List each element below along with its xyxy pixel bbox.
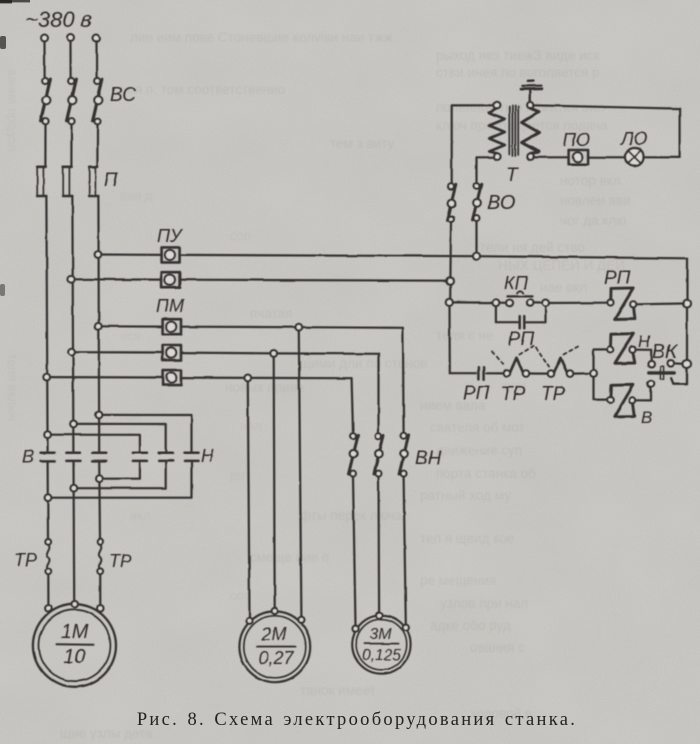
- wire L3 to fuse: [96, 124, 98, 166]
- wire row PM2 left: [72, 351, 163, 353]
- node tap PM2 on L2: [68, 349, 75, 356]
- svg-text:10: 10: [63, 646, 85, 668]
- wire right rail: [686, 258, 688, 360]
- wire L2 drop: [69, 41, 71, 78]
- svg-text:Т: Т: [506, 165, 519, 186]
- wire 2M drop a: [299, 331, 302, 617]
- wire coil N to VK: [636, 350, 652, 361]
- svg-text:узлов при нал: узлов при нал: [440, 596, 528, 611]
- svg-text:смеще ние п: смеще ние п: [250, 550, 329, 565]
- node right rail RP row: [683, 300, 691, 308]
- svg-text:ПУ: ПУ: [157, 226, 183, 246]
- svg-text:ТР: ТР: [541, 384, 566, 405]
- wire phase 2 main drop: [72, 196, 73, 453]
- contact N col2: [159, 453, 173, 461]
- relay coil V: [607, 385, 635, 417]
- node 2M branch b: [270, 350, 277, 357]
- transformer T primary winding: [489, 102, 505, 160]
- wire crossover top b: [77, 424, 166, 453]
- svg-text:ПО: ПО: [563, 130, 590, 150]
- wire phase 3 main drop: [97, 196, 100, 453]
- wire TR row seg3: [529, 372, 548, 374]
- reversing tap node on L1: [44, 431, 51, 438]
- wire lamp to right corner: [644, 156, 680, 158]
- svg-text:ратный ход му: ратный ход му: [420, 488, 511, 503]
- wire row PM2 right: [181, 353, 378, 354]
- wire phase2 below V: [72, 461, 75, 601]
- wire coil RP to right rail: [636, 302, 683, 305]
- svg-text:теля с не: теля с не: [436, 328, 494, 343]
- wire crossover top c: [51, 435, 140, 453]
- relay coil N: [607, 334, 635, 364]
- node L3 top terminal: [93, 35, 100, 42]
- contact PM1 box: [163, 319, 181, 334]
- wire row PM1 left: [98, 325, 162, 328]
- svg-text:рот: рот: [230, 468, 250, 483]
- svg-text:1М: 1М: [61, 621, 89, 643]
- node L1 top terminal: [41, 35, 48, 42]
- svg-text:0,125: 0,125: [362, 647, 401, 664]
- wire 3M drop b: [377, 477, 380, 613]
- svg-text:сое: сое: [230, 588, 251, 603]
- wire rail KP row to TR row corner: [448, 306, 450, 374]
- pushbutton KP: [493, 291, 549, 307]
- svg-text:3М: 3М: [369, 626, 392, 643]
- switch VO pole left: [447, 184, 456, 222]
- svg-text:новых приве: новых приве: [225, 380, 304, 395]
- svg-text:пчатая: пчатая: [250, 306, 292, 321]
- node KP row start on rail: [446, 299, 453, 306]
- contact N col3: [185, 453, 199, 461]
- motor M1: [33, 601, 116, 687]
- contact RP in TR row: [478, 367, 483, 379]
- wire branch up to coil N: [594, 349, 607, 370]
- node tap PU1 on L3: [95, 251, 102, 258]
- node 2M branch c: [245, 375, 252, 382]
- wire branch down to coil V: [594, 377, 607, 400]
- svg-text:0,27: 0,27: [258, 648, 294, 668]
- wire 3M drop c: [404, 477, 406, 625]
- svg-text:теля включ: теля включ: [5, 354, 20, 421]
- node rejoin on L1: [45, 494, 52, 501]
- svg-text:фты перек люча: фты перек люча: [300, 508, 403, 523]
- svg-text:Рис. 8. Схема электрооборудова: Рис. 8. Схема электрооборудования станка…: [137, 710, 577, 730]
- thermal contact TR1: [504, 358, 529, 377]
- svg-text:стви инея по воголяется р: стви инея по воголяется р: [436, 65, 600, 80]
- node VO-row1 junction: [473, 253, 480, 260]
- svg-text:ВО: ВО: [487, 192, 515, 214]
- wire row PM3 right: [181, 377, 352, 380]
- contact PO box: [569, 150, 589, 164]
- svg-text:вания продол: вания продол: [5, 69, 20, 151]
- wire TR row seg2: [486, 372, 504, 374]
- svg-text:щими дли по станов: щими дли по станов: [300, 356, 427, 371]
- wire crossover bottom b: [77, 461, 166, 488]
- svg-text:ося: ося: [120, 328, 141, 343]
- svg-text:рыход нез тиежЗ виде иск: рыход нез тиежЗ виде иск: [436, 48, 599, 63]
- wire row PU2 right: [180, 280, 450, 281]
- node right rail VK row: [683, 360, 691, 368]
- svg-text:РП: РП: [463, 383, 490, 404]
- svg-text:Н: Н: [638, 332, 651, 351]
- wire phase1 below V: [46, 461, 49, 539]
- wire 3M drop a: [353, 477, 356, 626]
- edge artifacts: [0, 0, 30, 2]
- wire secondary bottom to PO: [533, 156, 568, 158]
- svg-text:КП: КП: [504, 273, 529, 293]
- contact PU1 box: [162, 247, 180, 262]
- svg-text:ВК: ВК: [652, 341, 678, 363]
- svg-text:ТР: ТР: [109, 551, 132, 571]
- wire primary top to left rail: [452, 105, 494, 183]
- switch VS pole 2: [67, 78, 77, 124]
- wire 2M drop b: [274, 357, 275, 608]
- svg-text:2М: 2М: [260, 624, 286, 644]
- contact PU2 box: [162, 272, 180, 287]
- ground: [521, 81, 542, 103]
- relay coil RP: [608, 288, 637, 319]
- wire primary bottom to VO right pole: [477, 157, 494, 183]
- svg-text:ВН: ВН: [415, 448, 442, 469]
- svg-text:движение суп: движение суп: [436, 443, 522, 458]
- svg-text:новлен ави: новлен ави: [560, 193, 631, 208]
- transformer T core: [509, 106, 518, 156]
- wire row PM3 left: [47, 376, 163, 379]
- wire row PU1 right: [180, 255, 687, 258]
- svg-text:РП: РП: [604, 268, 631, 289]
- node L2 top terminal: [67, 35, 74, 42]
- wire VO left pole down rail: [449, 222, 452, 299]
- thermal heater TR phase3: [97, 539, 103, 574]
- contact V phase3: [92, 453, 106, 461]
- svg-text:тем з виту: тем з виту: [330, 136, 395, 151]
- switch VN pole a: [349, 433, 359, 476]
- svg-text:адке обо руд: адке обо руд: [430, 618, 511, 633]
- switch VO pole right: [473, 183, 482, 221]
- svg-text:тел я щвид кое: тел я щвид кое: [420, 531, 514, 546]
- wire row PU2 left: [71, 278, 161, 281]
- svg-text:ноя п. том соответственио: ноя п. том соответственио: [120, 82, 285, 97]
- switch VN pole c: [399, 433, 409, 476]
- node rejoin on L2: [71, 485, 78, 492]
- switch VS pole 3: [93, 78, 103, 124]
- wire crossover bottom c: [103, 461, 140, 479]
- wire L1 to fuse: [44, 124, 46, 166]
- svg-text:вии д: вии д: [120, 188, 153, 203]
- wire crossover top a: [102, 415, 191, 453]
- svg-text:ре мещения: ре мещения: [420, 573, 496, 588]
- motor M3: [352, 612, 410, 673]
- svg-text:В: В: [641, 408, 652, 427]
- node row PU2 end on rail: [446, 277, 453, 284]
- wire L3 drop: [95, 41, 97, 78]
- wire crossover bottom a: [51, 461, 191, 498]
- wire row PU1 left: [98, 253, 162, 256]
- node rejoin on L3: [96, 475, 103, 482]
- svg-text:ования с: ования с: [470, 640, 525, 655]
- reversing tap node on L2: [70, 421, 77, 428]
- svg-text:ВС: ВС: [110, 85, 136, 106]
- svg-text:свателя об мот: свателя об мот: [430, 420, 525, 435]
- wire KP row seg1: [453, 301, 493, 303]
- wire TR row seg4: [573, 372, 590, 375]
- switch VS pole 1: [41, 78, 51, 124]
- svg-text:вкл: вкл: [130, 508, 150, 523]
- svg-text:Н: Н: [201, 446, 215, 466]
- wire PO to lamp: [588, 156, 625, 158]
- svg-text:тели ня дей ство: тели ня дей ство: [480, 240, 585, 255]
- wire to motor1 c: [99, 574, 101, 605]
- contact PM2 box: [163, 345, 181, 360]
- wire L2 to fuse: [70, 124, 72, 166]
- fuse P pole 2: [63, 167, 72, 196]
- contact V phase2: [66, 453, 80, 461]
- svg-text:соп: соп: [230, 228, 251, 243]
- svg-text:~380 в: ~380 в: [25, 7, 92, 32]
- svg-text:поленнос тью нажатия вил: поленнос тью нажатия вил: [436, 100, 605, 115]
- svg-text:ПМ: ПМ: [156, 296, 184, 316]
- svg-text:ТР: ТР: [14, 550, 37, 570]
- wire phase3 below V: [98, 461, 101, 539]
- wire 2M drop c: [248, 381, 250, 618]
- svg-text:порта станка об: порта станка об: [436, 466, 536, 481]
- node 2M branch a: [296, 324, 303, 331]
- fuse P pole 1: [37, 167, 46, 196]
- motor M2: [239, 608, 310, 682]
- svg-text:нае вкл: нае вкл: [540, 280, 587, 295]
- node tap PU2 on L2: [68, 276, 75, 283]
- svg-text:ТР: ТР: [501, 384, 526, 405]
- svg-text:танок имеет: танок имеет: [300, 683, 376, 698]
- wire L1 drop: [43, 41, 45, 78]
- reversing tap node on L3: [96, 412, 103, 419]
- transformer T secondary winding: [522, 102, 539, 160]
- contact V phase1: [41, 453, 55, 461]
- wire 3M corner drop a: [402, 328, 405, 434]
- thermal contact TR2: [548, 358, 573, 377]
- wire TR row seg1: [450, 372, 476, 374]
- limit switch VK: [648, 360, 687, 387]
- svg-text:лие иим пове Стоневшие колvisи: лие иим пове Стоневшие колvisи наи тжж: [130, 30, 393, 45]
- contact PM3 box: [163, 370, 181, 385]
- wire secondary top to right: [533, 105, 680, 157]
- svg-text:В: В: [22, 447, 34, 467]
- svg-text:нал: нал: [240, 418, 262, 433]
- svg-text:ЛО: ЛО: [620, 129, 647, 149]
- switch VN pole b: [374, 433, 384, 476]
- svg-text:нотор вкл: нотор вкл: [560, 173, 621, 188]
- dashed linkage marks: [492, 346, 578, 367]
- svg-text:П: П: [104, 170, 118, 191]
- wire KP to coil RP: [549, 302, 608, 304]
- contact N col1: [133, 453, 147, 461]
- wire 3M corner drop c: [352, 378, 353, 433]
- wire phase 1 main drop: [46, 196, 47, 453]
- thermal heater TR phase1: [45, 539, 51, 574]
- wire row PM1 right: [181, 327, 403, 328]
- fuse P pole 3: [89, 167, 98, 196]
- node tap PM1 on L3: [95, 323, 102, 330]
- contact RP parallel branch: [496, 306, 546, 328]
- wire to motor1 a: [47, 574, 49, 605]
- wire coil V to VK lower node: [636, 387, 651, 400]
- lamp LO: [626, 148, 644, 166]
- wire 3M corner drop b: [377, 354, 379, 434]
- wire VO right pole to row1 node: [475, 221, 477, 253]
- node tap PM3 on L1: [43, 374, 50, 381]
- svg-text:чог да клю: чог да клю: [560, 213, 626, 228]
- node branch split: [590, 370, 597, 377]
